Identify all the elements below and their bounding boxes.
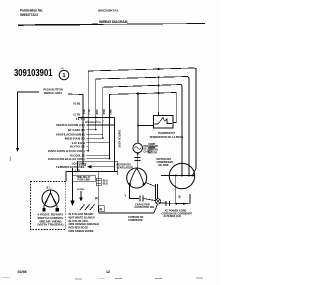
- switch matrix row wires: [83, 125, 115, 163]
- compressor motor circle: [169, 163, 194, 188]
- svg-text:B 1: B 1: [47, 185, 52, 189]
- svg-text:SWITCH CONTROL: SWITCH CONTROL: [38, 216, 64, 220]
- thermostat internal switch: [155, 118, 173, 125]
- overload caption: [144, 146, 159, 154]
- svg-text:MED FAN 50: MED FAN 50: [65, 136, 85, 140]
- svg-text:GRN GREEN VERDE: GRN GREEN VERDE: [69, 229, 94, 233]
- splice node circle: [155, 199, 160, 204]
- inline splice marks: [165, 201, 167, 206]
- svg-text:WIRING DIAGRAM: WIRING DIAGRAM: [99, 20, 128, 24]
- svg-text:TERMOSTATO DE LA PIEZA: TERMOSTATO DE LA PIEZA: [150, 135, 184, 139]
- svg-text:HI FAN 48: HI FAN 48: [68, 128, 85, 132]
- thermostat box: [154, 116, 174, 129]
- svg-text:12: 12: [106, 270, 110, 274]
- svg-text:VENTILACION ALTA (HI COOL): VENTILACION ALTA (HI COOL): [48, 149, 85, 153]
- svg-text:02/98: 02/98: [18, 270, 27, 274]
- capacitor caption: [135, 203, 156, 209]
- switch position labels: [48, 117, 85, 169]
- svg-text:RED: RED: [102, 110, 104, 115]
- wire label text left of fan: [117, 164, 133, 170]
- terminal color labels above switch box: [82, 109, 111, 115]
- time delay fuse label box: [72, 175, 95, 182]
- svg-text:(VISTA TRASERA): (VISTA TRASERA): [38, 223, 64, 227]
- switch matrix verticals inside box: [83, 118, 110, 164]
- svg-text:10 (N): 10 (N): [73, 101, 80, 105]
- title line right segment turning down to switch: [68, 94, 83, 118]
- run wire up to compressor: [189, 194, 191, 204]
- overload junction dot: [137, 153, 139, 155]
- svg-text:BLK BLACK NEGRO: BLK BLACK NEGRO: [69, 212, 94, 216]
- svg-text:PROTECTOR: PROTECTOR: [144, 146, 159, 148]
- header publication number: [20, 9, 43, 17]
- svg-text:BLU: BLU: [87, 110, 89, 115]
- svg-text:DE SOBRE: DE SOBRE: [144, 149, 157, 151]
- terminal block TB1 with selector arrow: [78, 161, 118, 171]
- node to compressor run wire: [160, 202, 190, 205]
- thermostat caption: [150, 132, 184, 139]
- revision circle 1: [59, 70, 69, 80]
- svg-text:ORN: ORN: [95, 109, 97, 114]
- switch box right edge: [114, 118, 116, 172]
- rotary switch caption: [38, 213, 64, 227]
- fan motor winding symbol: [130, 168, 137, 183]
- svg-text:THERMOSTAT: THERMOSTAT: [158, 132, 175, 135]
- terminal number labels under box top: [82, 120, 111, 123]
- wire nest N4 to thermostat right: [110, 93, 177, 123]
- svg-text:CORRIENTE: CORRIENTE: [128, 219, 143, 222]
- svg-text:1 TB: 1 TB: [75, 170, 81, 173]
- wire to overload protector: [137, 95, 139, 144]
- switch box top edge: [78, 117, 115, 119]
- thermostat top terminal stub: [158, 113, 160, 116]
- rotary box to switch wire: [65, 172, 67, 182]
- switch box bottom edge: [66, 171, 118, 173]
- svg-text:VENTILADOR: VENTILADOR: [117, 167, 133, 170]
- bus bend into compressor top: [193, 169, 197, 176]
- svg-text:BLK: BLK: [103, 182, 108, 185]
- svg-text:WHT: WHT: [109, 109, 111, 115]
- svg-text:INTERRUPTOR: INTERRUPTOR: [85, 122, 101, 124]
- svg-text:(FUSE): (FUSE): [77, 189, 85, 191]
- svg-text:SWITCH ASSY: SWITCH ASSY: [118, 130, 122, 148]
- rotary switch terminal feet: [43, 208, 60, 211]
- svg-text:11 TB: 11 TB: [73, 112, 80, 116]
- capacitor plates: [139, 196, 141, 202]
- run wire R vertical: [98, 172, 100, 214]
- junction dots on nest: [137, 68, 160, 127]
- fan left wire down to capacitor: [130, 185, 139, 199]
- svg-text:▪▪▪: ▪▪▪: [61, 66, 64, 70]
- svg-text:1 (LO): 1 (LO): [79, 164, 86, 167]
- svg-text:11 TH: 11 TH: [76, 117, 85, 121]
- svg-text:V: V: [125, 194, 127, 198]
- svg-text:5995377224: 5995377224: [20, 13, 38, 17]
- wire to thermostat top: [158, 77, 160, 115]
- svg-text:4 POSIT. ROTARY: 4 POSIT. ROTARY: [38, 213, 64, 217]
- power cord wire bottom run: [99, 204, 158, 213]
- footer tick marks: [2, 278, 203, 279]
- overload to fan wire: [137, 153, 139, 168]
- power cord text: [162, 210, 193, 219]
- wire color legend: [69, 212, 100, 233]
- svg-text:RED RED ROJO: RED RED ROJO: [69, 226, 88, 230]
- stray scan mark: [9, 157, 11, 162]
- svg-text:ORN ORANGE NARANJA: ORN ORANGE NARANJA: [69, 222, 100, 226]
- svg-text:1: 1: [63, 73, 66, 79]
- connector label BLU BLK: [103, 180, 108, 186]
- rotary switch circle: [42, 190, 59, 207]
- svg-text:WAC053K7A1: WAC053K7A1: [98, 9, 119, 13]
- compressor internal chord: [169, 175, 194, 177]
- svg-text:BLU BLUE AZUL: BLU BLUE AZUL: [69, 219, 90, 223]
- rotary switch box dashed: [31, 182, 66, 230]
- svg-text:(REAR VIEW): (REAR VIEW): [40, 219, 62, 223]
- compressor chord entry stub: [161, 175, 169, 177]
- overload internal element: [135, 147, 141, 150]
- svg-text:FUSE LINK: FUSE LINK: [77, 179, 90, 182]
- connector on R wire: [96, 178, 101, 186]
- chassis ground hatch: [80, 205, 95, 211]
- switch assembly title: PUSH BUTTON SWITCH: [43, 88, 62, 95]
- matrix junction dots: [82, 129, 110, 164]
- capacitor to node wire: [144, 199, 156, 201]
- wire nest N3: [103, 85, 182, 176]
- fuse arrow from switch: [72, 168, 74, 202]
- wire nest N1: [88, 68, 196, 169]
- wire nest N2: [96, 77, 189, 176]
- compressor terminal dots: [175, 175, 194, 177]
- svg-text:DE AIRE: DE AIRE: [159, 164, 169, 167]
- svg-text:BLK: BLK: [82, 110, 84, 115]
- overload protector circle: [133, 143, 143, 153]
- fan motor circle: [127, 168, 147, 188]
- svg-text:VENTILACION (HI): VENTILACION (HI): [56, 123, 85, 127]
- fan right wires down: [154, 184, 156, 199]
- svg-text:CARGA: CARGA: [144, 150, 153, 153]
- compressor motor caption: [157, 158, 174, 167]
- compressor start wire: [175, 176, 177, 204]
- svg-text:309103901: 309103901: [14, 68, 53, 79]
- terminal dots on box top: [82, 117, 110, 119]
- junction dots on run wire: [175, 203, 177, 205]
- power cord lower caption: [128, 216, 144, 222]
- svg-text:VENTILACION BAJA (LO COOL): VENTILACION BAJA (LO COOL): [48, 157, 85, 161]
- svg-text:WHT WHITE BLANCO: WHT WHITE BLANCO: [69, 215, 95, 219]
- wire from thermostat left to overload: [138, 125, 154, 127]
- svg-text:ALTERNA (CA): ALTERNA (CA): [164, 215, 182, 218]
- inline connector ticks: [135, 157, 141, 159]
- rotary switch contacts: [44, 190, 57, 209]
- title line left segment with arrow down: [18, 92, 40, 148]
- svg-text:CAPACITOR DEL: CAPACITOR DEL: [135, 206, 156, 209]
- compressor designation text COMP: [148, 143, 158, 154]
- header rule: [18, 23, 98, 26]
- svg-text:SWITCH ASSY: SWITCH ASSY: [44, 91, 63, 95]
